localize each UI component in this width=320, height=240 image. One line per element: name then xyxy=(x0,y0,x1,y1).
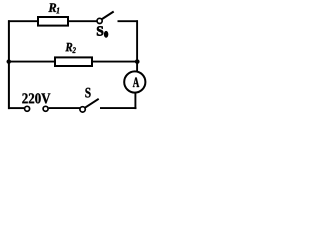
label R1 xyxy=(48,3,56,12)
switch S0 lever xyxy=(102,12,114,20)
wire: right vertical upper segment xyxy=(136,20,138,71)
wire: ammeter to bottom corner xyxy=(134,93,136,109)
label S xyxy=(85,88,90,98)
wire: top branch middle segment xyxy=(68,20,97,22)
wire: middle branch left segment xyxy=(8,61,56,63)
wire: bottom branch middle segment xyxy=(49,107,80,109)
node junction right xyxy=(135,59,139,63)
node junction left xyxy=(7,60,11,64)
wire: bottom branch left segment xyxy=(8,107,24,109)
label S0 xyxy=(97,26,103,35)
switch S pivot xyxy=(80,107,85,112)
wire: left vertical branch xyxy=(8,20,10,109)
source terminal right (220V) xyxy=(43,106,48,111)
wire: bottom branch right segment xyxy=(100,107,136,109)
wire: top branch left segment xyxy=(8,20,39,22)
wire: middle branch right segment xyxy=(92,61,139,63)
resistor R2 xyxy=(55,57,92,66)
switch S0 pivot xyxy=(97,18,102,23)
label 220V xyxy=(22,93,50,103)
ammeter A xyxy=(124,71,145,92)
source terminal left (220V) xyxy=(25,106,30,111)
resistor R1 xyxy=(38,17,68,26)
label R2 xyxy=(65,43,72,51)
wire: top branch right segment xyxy=(118,20,139,22)
switch S lever xyxy=(85,99,99,108)
